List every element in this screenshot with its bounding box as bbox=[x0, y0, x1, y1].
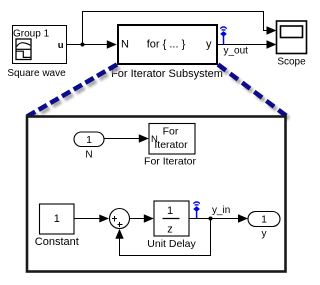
logging badge on y_in bbox=[194, 202, 200, 218]
svg-text:For: For bbox=[163, 126, 179, 138]
svg-text:y_out: y_out bbox=[224, 46, 249, 57]
Unit Delay block bbox=[154, 201, 189, 236]
inport N oval bbox=[74, 132, 104, 147]
svg-text:z: z bbox=[167, 224, 173, 236]
svg-text:Square wave: Square wave bbox=[7, 68, 66, 79]
svg-text:For Iterator: For Iterator bbox=[144, 156, 196, 168]
svg-text:Group 1: Group 1 bbox=[13, 28, 50, 39]
subsystem contents box bbox=[27, 117, 286, 272]
svg-text:1: 1 bbox=[86, 134, 92, 146]
wire branch u to Scope input 1 bbox=[83, 12, 268, 45]
For Iterator block bbox=[149, 124, 195, 155]
zoom callout shadow left bbox=[30, 68, 120, 120]
wire y_in: Unit Delay to outport bbox=[189, 218, 239, 220]
wire y_out: subsystem to Scope input 2 bbox=[218, 44, 267, 46]
svg-text:N: N bbox=[151, 134, 158, 145]
svg-text:1: 1 bbox=[167, 205, 173, 217]
logging badge on y_out bbox=[221, 27, 227, 44]
arrowhead into outport y bbox=[238, 214, 248, 222]
arrowhead up into Sum bottom bbox=[115, 229, 123, 239]
svg-text:y_in: y_in bbox=[212, 205, 230, 216]
arrowhead into subsystem N bbox=[107, 40, 117, 48]
svg-text:Iterator: Iterator bbox=[154, 139, 188, 151]
svg-text:1: 1 bbox=[261, 213, 267, 225]
svg-text:y: y bbox=[262, 228, 267, 239]
svg-text:for { ... }: for { ... } bbox=[147, 39, 186, 51]
arrowhead into Unit Delay bbox=[144, 214, 154, 222]
zoom callout shadow right bbox=[221, 68, 290, 120]
svg-text:1: 1 bbox=[54, 213, 60, 225]
zoom callout dashed line left bbox=[27, 65, 117, 117]
svg-text:y: y bbox=[206, 39, 212, 51]
outport y oval bbox=[248, 212, 280, 227]
arrowhead into For Iterator bbox=[139, 134, 149, 142]
source block Square wave (Group 1) bbox=[13, 26, 67, 64]
wire N to For Iterator bbox=[104, 138, 140, 140]
svg-text:For Iterator Subsystem: For Iterator Subsystem bbox=[111, 68, 223, 80]
zoom callout dashed line right bbox=[218, 65, 287, 117]
wire Constant to Sum bbox=[74, 218, 100, 220]
wire u: source to subsystem bbox=[67, 44, 108, 46]
svg-text:Constant: Constant bbox=[35, 236, 79, 248]
subsystem block For Iterator Subsystem bbox=[118, 25, 217, 64]
wire Sum to Unit Delay bbox=[130, 218, 146, 220]
sum block bbox=[110, 209, 130, 229]
junction on u wire bbox=[81, 43, 85, 47]
svg-text:N: N bbox=[121, 39, 129, 51]
svg-text:N: N bbox=[85, 149, 92, 160]
svg-text:u: u bbox=[58, 40, 64, 51]
arrowhead into Scope input 2 bbox=[267, 40, 277, 48]
svg-text:Scope: Scope bbox=[277, 57, 306, 68]
Constant block bbox=[40, 204, 75, 234]
svg-text:Unit Delay: Unit Delay bbox=[147, 238, 196, 250]
arrowhead into Scope input 1 bbox=[267, 26, 277, 34]
arrowhead into Sum bbox=[99, 215, 109, 223]
Scope block bbox=[277, 21, 307, 54]
wire feedback: y_in junction to Sum bbox=[120, 219, 211, 256]
junction on y_in wire bbox=[209, 217, 213, 221]
